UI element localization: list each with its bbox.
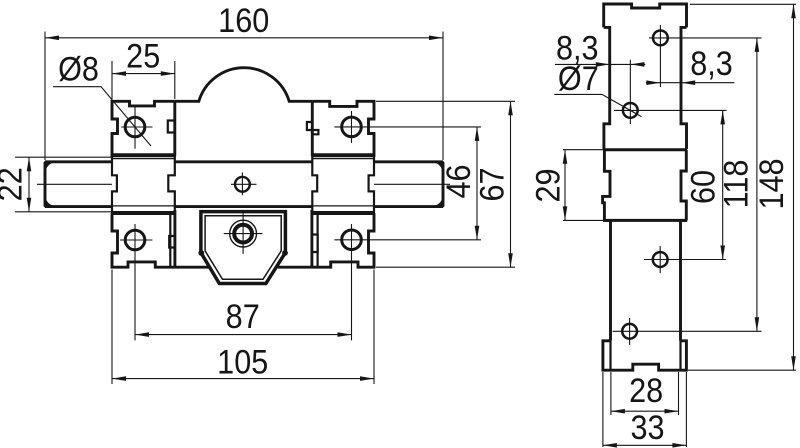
lower left boundary tab bbox=[169, 236, 175, 248]
svg-text:67: 67 bbox=[473, 167, 511, 201]
body bottom edge right segment bbox=[278, 266, 312, 269]
screw hole lower right crosshair bbox=[334, 224, 481, 340]
side hole 3 crosshair bbox=[644, 246, 726, 273]
side view foot bbox=[603, 341, 687, 370]
label diameter 7 leader bbox=[554, 94, 641, 116]
cylinder outer circle bbox=[230, 220, 257, 247]
dim 87 arrows bbox=[135, 332, 352, 337]
lower left wing inner vertical bbox=[169, 214, 171, 268]
lower left wing bbox=[112, 213, 175, 267]
svg-text:29: 29 bbox=[529, 168, 567, 202]
dim 8,3 right arrows bbox=[646, 80, 695, 85]
side hole 3 bbox=[653, 252, 668, 267]
svg-text:118: 118 bbox=[717, 160, 755, 209]
dim 118 line bbox=[756, 38, 758, 331]
screw hole upper right bbox=[342, 117, 362, 137]
dim 67 arrows bbox=[508, 101, 513, 267]
dim 87 line bbox=[135, 334, 352, 336]
svg-text:22: 22 bbox=[0, 167, 29, 201]
screw hole lower right bbox=[342, 230, 362, 250]
upper left boundary tab bbox=[168, 121, 175, 133]
dim 28 extension lines bbox=[611, 372, 679, 415]
dim 105 extension lines bbox=[112, 270, 374, 385]
screw hole upper left crosshair bbox=[121, 106, 152, 149]
side hole 1 crosshair bbox=[649, 25, 762, 87]
svg-text:Ø7: Ø7 bbox=[558, 60, 599, 98]
central small hole bbox=[235, 177, 250, 192]
svg-text:105: 105 bbox=[217, 343, 268, 381]
side hole 4 bbox=[622, 324, 637, 339]
dim 22 extension lines bbox=[15, 157, 112, 212]
side view foot inner verticals bbox=[611, 341, 681, 370]
bolt bar outline bbox=[45, 162, 443, 207]
dim 67 extension lines bbox=[376, 101, 515, 267]
right wing waist bands bbox=[311, 155, 375, 213]
lower right wing inner vertical bbox=[317, 214, 319, 268]
left wing waist side edges with notches bbox=[112, 156, 175, 212]
dim 22 line bbox=[28, 157, 30, 212]
dim 60 arrows bbox=[720, 110, 725, 259]
dim 160 arrows bbox=[45, 36, 443, 41]
central body top with dome bbox=[175, 68, 312, 102]
dim 33 line bbox=[603, 444, 687, 446]
dim 118 arrows bbox=[755, 38, 760, 331]
svg-text:160: 160 bbox=[218, 2, 269, 40]
dim 29 extension lines bbox=[563, 150, 603, 221]
body bottom edge left segment bbox=[175, 266, 209, 269]
dim 29 arrows bbox=[563, 150, 568, 221]
side hole 2 crosshair bbox=[614, 60, 727, 124]
dim 25 extension lines bbox=[112, 61, 175, 99]
dim 105 arrows bbox=[112, 376, 374, 381]
svg-text:33: 33 bbox=[630, 409, 664, 447]
cylinder guard corner dots bbox=[198, 250, 287, 256]
svg-text:8,3: 8,3 bbox=[690, 45, 733, 83]
lower right wing / body boundary bbox=[310, 210, 313, 267]
lower right boundary tab bbox=[312, 235, 318, 253]
upper right wing bbox=[312, 101, 374, 157]
side view lower section edges bbox=[604, 220, 686, 340]
dim 22 arrows bbox=[27, 157, 32, 212]
cylinder inner ring bbox=[234, 225, 252, 243]
dim 28 line bbox=[611, 410, 679, 412]
svg-text:Ø8: Ø8 bbox=[58, 50, 99, 88]
side hole 1 bbox=[653, 31, 668, 46]
dim 148 extension lines bbox=[688, 4, 796, 370]
dim 60 line bbox=[722, 110, 724, 259]
side view waist section right edge bbox=[681, 150, 686, 220]
left wing waist bands bbox=[111, 155, 176, 213]
upper right boundary tabs bbox=[307, 122, 319, 134]
dim 25 line bbox=[112, 73, 175, 75]
upper left wing bbox=[112, 101, 175, 157]
dim 29 line bbox=[564, 150, 566, 221]
dim 8,3 left line bbox=[555, 63, 645, 65]
label diameter 8 leader bbox=[53, 87, 151, 146]
dim 28 arrows bbox=[611, 409, 679, 414]
central small hole crosshair bbox=[231, 172, 257, 195]
svg-text:25: 25 bbox=[126, 37, 160, 75]
side hole 2 bbox=[623, 103, 638, 118]
dim 67 line bbox=[510, 101, 512, 267]
bolt end corner arcs bbox=[45, 162, 443, 207]
screw hole lower left crosshair bbox=[120, 224, 153, 340]
dim 25 arrows bbox=[112, 71, 175, 76]
dim 46 arrows bbox=[475, 127, 480, 240]
svg-text:148: 148 bbox=[753, 158, 791, 209]
dim 148 arrows bbox=[791, 4, 796, 370]
cylinder crosshair bbox=[224, 212, 263, 254]
screw hole lower left bbox=[125, 230, 145, 250]
svg-text:87: 87 bbox=[226, 298, 260, 336]
svg-text:28: 28 bbox=[629, 372, 663, 410]
lower right wing bbox=[312, 213, 374, 267]
side view section line B bbox=[603, 219, 687, 222]
cylinder guard inner bbox=[205, 216, 281, 279]
side view upper-mid section edges bbox=[604, 27, 687, 149]
dim 105 line bbox=[112, 378, 374, 380]
dim 160 extension lines bbox=[45, 32, 443, 161]
side view top section bbox=[604, 4, 687, 27]
side view waist section left edge bbox=[603, 150, 610, 220]
side view section line A bbox=[603, 148, 687, 151]
dim 46 line bbox=[476, 127, 478, 240]
screw hole upper right crosshair bbox=[334, 111, 481, 143]
upper left wing / body boundary bbox=[173, 101, 176, 156]
screw hole upper left bbox=[125, 117, 145, 137]
dim 160 line bbox=[45, 37, 443, 39]
dim 148 line bbox=[793, 4, 795, 370]
side hole 4 crosshair bbox=[613, 318, 762, 345]
lower left wing / body boundary bbox=[173, 210, 176, 267]
dim 33 arrows bbox=[603, 443, 687, 448]
cylinder guard outer bbox=[201, 212, 286, 284]
upper right wing / body boundary bbox=[311, 101, 314, 156]
bolt centerline bbox=[37, 183, 450, 185]
dim 8,3 left arrows bbox=[596, 62, 645, 67]
right wing waist side edges with notches bbox=[312, 156, 374, 212]
dim 33 extension lines bbox=[603, 372, 687, 447]
svg-text:46: 46 bbox=[440, 164, 478, 198]
dim 8,3 right line bbox=[646, 82, 734, 84]
